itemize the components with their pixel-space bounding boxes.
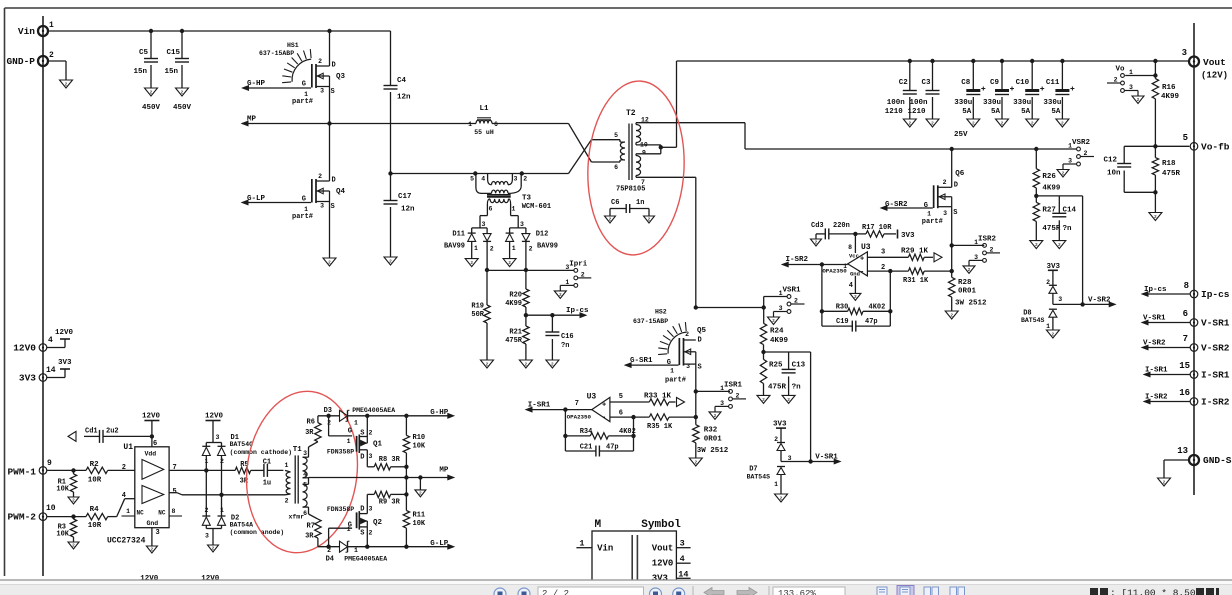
svg-text:1: 1 bbox=[927, 211, 931, 218]
resistor R35 bbox=[647, 414, 696, 431]
svg-text:1: 1 bbox=[474, 245, 478, 252]
capacitor C13 bbox=[782, 352, 806, 395]
svg-text:450V: 450V bbox=[173, 104, 192, 112]
svg-text:1210: 1210 bbox=[907, 108, 926, 116]
wire VSR1 tap down bbox=[810, 352, 812, 462]
svg-text:: [11.00 * 8.50: : [11.00 * 8.50 bbox=[1110, 588, 1196, 595]
svg-text:2: 2 bbox=[369, 430, 373, 437]
svg-text:3: 3 bbox=[369, 506, 373, 513]
svg-text:R4: R4 bbox=[90, 506, 100, 514]
ground at C5 bbox=[145, 88, 158, 96]
svg-text:2: 2 bbox=[72, 543, 75, 549]
resistor R26 bbox=[1033, 149, 1061, 196]
svg-text:U1: U1 bbox=[123, 443, 133, 452]
left connector bus bbox=[42, 16, 44, 576]
svg-text:3V3: 3V3 bbox=[773, 421, 787, 429]
wire T1 pin6 to R7 bbox=[309, 507, 318, 519]
svg-text:G-LP: G-LP bbox=[247, 195, 266, 203]
transformer T1 bbox=[285, 446, 309, 521]
svg-text:Vcc: Vcc bbox=[849, 253, 859, 260]
svg-text:5A: 5A bbox=[991, 108, 1001, 116]
svg-text:3V3: 3V3 bbox=[58, 359, 72, 367]
wire T2 pin7 out bbox=[636, 177, 696, 307]
wire U1 pin7 out bbox=[169, 469, 235, 471]
junction V-SR2 bbox=[1080, 302, 1084, 306]
svg-text:2: 2 bbox=[1114, 77, 1118, 84]
junction C9 bbox=[1000, 59, 1004, 63]
diode D3 bbox=[324, 407, 396, 427]
svg-text:R30: R30 bbox=[836, 304, 849, 312]
power symbol 3V3 at pin 14 bbox=[58, 359, 72, 369]
ground at Q4 source bbox=[323, 258, 336, 266]
wire R26 junction row bbox=[1036, 195, 1082, 197]
svg-text:4K99: 4K99 bbox=[1161, 93, 1180, 101]
junction R31 left bbox=[888, 269, 892, 273]
svg-text:R21: R21 bbox=[509, 329, 522, 337]
wire D1 right leg bbox=[221, 456, 223, 517]
svg-text:12V0: 12V0 bbox=[142, 413, 161, 421]
junction R20/R21 bbox=[524, 313, 528, 317]
annotation red ellipse around T2 bbox=[584, 79, 689, 258]
svg-text:2: 2 bbox=[943, 179, 947, 186]
svg-text:OPA2350: OPA2350 bbox=[822, 267, 847, 274]
svg-text:3: 3 bbox=[303, 450, 307, 457]
resistor R16 bbox=[1152, 61, 1179, 146]
junction D12/R20 bbox=[524, 268, 528, 272]
svg-text:I-SR2: I-SR2 bbox=[786, 256, 809, 264]
svg-text:D: D bbox=[698, 337, 702, 345]
svg-text:47p: 47p bbox=[606, 444, 619, 452]
svg-text:BAV99: BAV99 bbox=[444, 243, 465, 251]
svg-text:6: 6 bbox=[614, 164, 618, 171]
resistor R6 bbox=[305, 416, 321, 442]
svg-text:R32: R32 bbox=[704, 427, 718, 435]
ground below C11 bbox=[1056, 119, 1069, 127]
svg-text:C11: C11 bbox=[1046, 79, 1060, 87]
svg-text:V-SR2: V-SR2 bbox=[1143, 340, 1166, 348]
junction D11/R19 bbox=[485, 268, 489, 272]
capacitor C5 bbox=[133, 31, 160, 112]
resistor R32 bbox=[693, 391, 729, 458]
svg-text:3: 3 bbox=[156, 529, 160, 537]
svg-text:3R: 3R bbox=[305, 429, 314, 437]
transformer T2 bbox=[591, 109, 649, 194]
ground below D2 bbox=[208, 545, 219, 552]
svg-text:D4: D4 bbox=[326, 556, 334, 564]
svg-text:3: 3 bbox=[686, 363, 690, 370]
wire lower rail to T3 bbox=[391, 173, 522, 175]
svg-text:S: S bbox=[953, 209, 957, 217]
svg-text:(12V): (12V) bbox=[1201, 71, 1228, 81]
svg-text:3: 3 bbox=[974, 254, 978, 261]
symbol table box bbox=[592, 531, 676, 583]
svg-text:12V0: 12V0 bbox=[13, 343, 36, 354]
svg-text:3: 3 bbox=[779, 305, 783, 312]
ground on MP rail bbox=[415, 478, 426, 497]
capacitor C9 bbox=[983, 61, 1014, 119]
svg-text:2: 2 bbox=[609, 217, 612, 223]
svg-text:V-SR1: V-SR1 bbox=[1143, 315, 1166, 323]
svg-text:2: 2 bbox=[931, 121, 934, 127]
wire U1 pin5 out bbox=[169, 493, 285, 495]
capacitor C8 bbox=[954, 61, 985, 119]
svg-text:G-LP: G-LP bbox=[430, 540, 449, 548]
diode D12 BAV99 bbox=[506, 221, 558, 270]
junction D1 on pin7 bbox=[204, 468, 208, 472]
transistor Q4 bbox=[292, 173, 346, 221]
svg-text:4: 4 bbox=[48, 336, 53, 345]
svg-text:2: 2 bbox=[968, 267, 971, 273]
wire V-SR1 bbox=[781, 454, 840, 464]
svg-text:(common anode): (common anode) bbox=[230, 529, 285, 536]
svg-text:R19: R19 bbox=[471, 303, 484, 311]
transistor Q1 bbox=[327, 416, 383, 467]
svg-text:Ip-cs: Ip-cs bbox=[566, 307, 589, 315]
svg-text:637-15ABP: 637-15ABP bbox=[633, 318, 668, 325]
wire Vout rail bbox=[677, 60, 1190, 62]
svg-text:1: 1 bbox=[579, 539, 584, 549]
wire Q6 drain bbox=[951, 149, 953, 187]
wire PWM-2 bbox=[47, 516, 86, 518]
ground below R3 bbox=[68, 542, 79, 549]
wire Vo-fb line bbox=[1124, 145, 1189, 147]
svg-text:2: 2 bbox=[762, 397, 765, 403]
svg-text:S: S bbox=[331, 88, 335, 96]
svg-text:2: 2 bbox=[787, 397, 790, 403]
svg-text:part#: part# bbox=[292, 98, 313, 106]
svg-text:8: 8 bbox=[1184, 281, 1189, 291]
svg-text:D: D bbox=[332, 62, 336, 70]
svg-text:BAT54C: BAT54C bbox=[230, 441, 254, 448]
svg-text:FDN358P: FDN358P bbox=[327, 449, 354, 456]
transformer T3 bbox=[470, 171, 551, 228]
label 12V0 bottom right bbox=[201, 575, 220, 583]
connector V-SR2 pin 7 bbox=[1183, 334, 1230, 354]
open arrow to Q6 gate bbox=[934, 253, 942, 262]
right connector bus bbox=[1193, 23, 1195, 495]
wire U3b pin6 bbox=[610, 416, 649, 418]
svg-text:4K99: 4K99 bbox=[505, 300, 522, 308]
wire T2 pin12 out bbox=[636, 122, 745, 124]
svg-text:(common cathode): (common cathode) bbox=[230, 449, 292, 456]
junction R3 top bbox=[71, 514, 75, 518]
connector 3V3 pin 14 bbox=[19, 366, 56, 384]
svg-text:3: 3 bbox=[943, 210, 947, 217]
wire center tap to Vout rail bbox=[676, 61, 678, 147]
svg-text:Vout: Vout bbox=[1203, 57, 1226, 68]
feedback right vertical U3b bbox=[633, 417, 635, 451]
svg-text:BAT54S: BAT54S bbox=[1021, 317, 1045, 324]
svg-text:3V3: 3V3 bbox=[19, 373, 36, 384]
svg-text:C6: C6 bbox=[611, 199, 619, 207]
svg-text:R9 3R: R9 3R bbox=[379, 499, 401, 507]
svg-text:R35 1K: R35 1K bbox=[647, 423, 673, 431]
op-amp U3 second half bbox=[567, 393, 623, 423]
capacitor C3 bbox=[907, 61, 939, 119]
resistor R3 bbox=[56, 517, 76, 542]
svg-text:1: 1 bbox=[220, 507, 224, 514]
svg-text:G-HP: G-HP bbox=[247, 80, 266, 88]
svg-text:1: 1 bbox=[49, 21, 54, 30]
svg-text:C17: C17 bbox=[398, 193, 412, 201]
svg-text:3R: 3R bbox=[305, 533, 314, 541]
svg-text:13: 13 bbox=[1177, 446, 1188, 456]
svg-text:UCC27324: UCC27324 bbox=[107, 537, 146, 546]
svg-text:16: 16 bbox=[1179, 388, 1190, 398]
power symbol 12V0 at pin 4 bbox=[55, 329, 74, 339]
capacitor C11 bbox=[1043, 61, 1074, 119]
svg-text:5: 5 bbox=[619, 393, 623, 401]
svg-text:2: 2 bbox=[685, 331, 689, 338]
svg-text:75P8105: 75P8105 bbox=[616, 186, 645, 194]
svg-text:S: S bbox=[331, 203, 335, 211]
svg-text:R33 1K: R33 1K bbox=[644, 393, 672, 401]
svg-text:2: 2 bbox=[714, 413, 717, 419]
svg-text:C3: C3 bbox=[921, 79, 931, 87]
wire Q3 source to MP bbox=[329, 87, 331, 124]
svg-text:G: G bbox=[302, 81, 306, 89]
resistor R2 bbox=[86, 461, 135, 485]
svg-text:3: 3 bbox=[320, 88, 324, 95]
svg-text:12V0: 12V0 bbox=[55, 329, 74, 337]
svg-text:2: 2 bbox=[736, 392, 740, 399]
svg-text:BAT54A: BAT54A bbox=[230, 522, 254, 529]
wire R24 junction row bbox=[764, 351, 811, 353]
svg-text:C10: C10 bbox=[1016, 79, 1030, 87]
svg-text:3: 3 bbox=[1068, 158, 1072, 165]
wire to ISR1 bbox=[696, 390, 730, 392]
svg-text:BAV99: BAV99 bbox=[537, 243, 558, 251]
svg-text:I-SR1: I-SR1 bbox=[528, 402, 551, 410]
svg-text:1: 1 bbox=[304, 206, 308, 213]
svg-text:10K: 10K bbox=[413, 443, 426, 451]
ground at C15 bbox=[176, 88, 189, 96]
svg-text:S: S bbox=[360, 530, 364, 538]
ground at C6 left bbox=[605, 216, 616, 223]
svg-text:9: 9 bbox=[47, 459, 52, 468]
svg-text:7: 7 bbox=[575, 400, 579, 408]
wire MP rail right of L1 bbox=[492, 123, 569, 125]
inductor L1 bbox=[468, 105, 498, 136]
svg-text:330u: 330u bbox=[954, 99, 972, 107]
wire U3b output I-SR1 bbox=[526, 402, 592, 412]
svg-text:100n: 100n bbox=[909, 99, 928, 107]
svg-text:1: 1 bbox=[126, 508, 130, 515]
svg-text:part#: part# bbox=[292, 213, 313, 221]
svg-text:VSR2: VSR2 bbox=[1072, 139, 1091, 147]
svg-text:PMEG4005AEA: PMEG4005AEA bbox=[352, 407, 395, 414]
svg-text:D: D bbox=[332, 177, 336, 185]
svg-text:2: 2 bbox=[581, 271, 585, 278]
ground below C2 bbox=[903, 119, 916, 127]
svg-text:Vin: Vin bbox=[597, 544, 613, 554]
wire Q4 drain bbox=[329, 124, 331, 182]
svg-text:2: 2 bbox=[369, 530, 373, 537]
svg-text:10: 10 bbox=[46, 504, 56, 513]
svg-text:2: 2 bbox=[490, 246, 494, 253]
wire GND-P to ground bbox=[48, 61, 66, 80]
wire MP drive rail bbox=[309, 477, 448, 479]
ground at GND-P bbox=[60, 80, 73, 88]
resistor R7 bbox=[305, 519, 321, 547]
test point VSR2 bbox=[1057, 139, 1094, 177]
svg-text:4: 4 bbox=[680, 554, 685, 564]
net label MP bottom bbox=[439, 467, 453, 480]
svg-text:2: 2 bbox=[389, 259, 392, 265]
symbol pin 14 3V3 bbox=[652, 570, 691, 584]
feedback left vertical U3b bbox=[564, 410, 566, 451]
svg-text:5: 5 bbox=[1183, 133, 1188, 143]
resistor R10 bbox=[403, 416, 426, 478]
svg-text:5: 5 bbox=[303, 482, 307, 489]
svg-text:T1: T1 bbox=[293, 446, 303, 454]
svg-text:ISR2: ISR2 bbox=[978, 235, 997, 243]
connector I-SR2 pin 16 bbox=[1179, 388, 1230, 408]
svg-text:2: 2 bbox=[1061, 121, 1064, 127]
junction C4/C17/rail bbox=[388, 171, 392, 175]
wire U3a Vcc bbox=[854, 234, 856, 253]
svg-text:I-SR2: I-SR2 bbox=[1145, 394, 1168, 402]
wire Q3 drain bbox=[329, 31, 331, 66]
svg-text:2: 2 bbox=[212, 546, 215, 552]
svg-text:Q3: Q3 bbox=[336, 73, 346, 81]
ground below R32 bbox=[689, 458, 702, 466]
capacitor Cd3 bbox=[811, 222, 855, 239]
svg-text:5: 5 bbox=[470, 176, 474, 183]
svg-text:PMEG4005AEA: PMEG4005AEA bbox=[344, 556, 387, 563]
test point ISR1 bbox=[709, 381, 746, 419]
wire SR1 rail bbox=[696, 307, 764, 309]
junction V-SR1 bbox=[808, 459, 812, 463]
svg-text:U3: U3 bbox=[861, 243, 871, 252]
wire U3a pin3 bbox=[867, 256, 908, 258]
ground below R1 bbox=[68, 497, 79, 504]
wire C14 rail to V-SR2 bbox=[1082, 196, 1084, 305]
resistor R31 bbox=[903, 268, 952, 285]
svg-text:V-SR2: V-SR2 bbox=[1201, 343, 1230, 354]
svg-text:0R01: 0R01 bbox=[704, 436, 723, 444]
wire Q5 source bbox=[695, 364, 697, 391]
annotation red ellipse around T1 bbox=[238, 385, 367, 559]
wire U3a output I-SR2 bbox=[782, 256, 848, 267]
svg-text:2: 2 bbox=[551, 362, 554, 368]
ground below R28 bbox=[945, 311, 958, 319]
svg-text:2: 2 bbox=[815, 240, 818, 246]
svg-text:V-SR1: V-SR1 bbox=[1201, 318, 1230, 329]
svg-text:1n: 1n bbox=[636, 199, 644, 207]
svg-text:8: 8 bbox=[172, 508, 176, 515]
capacitor C15 bbox=[164, 31, 191, 112]
ground below U3a bbox=[850, 293, 861, 300]
svg-text:R29 1K: R29 1K bbox=[901, 248, 929, 256]
svg-text:2: 2 bbox=[529, 246, 533, 253]
svg-text:R16: R16 bbox=[1162, 84, 1176, 92]
svg-text:OPA2350: OPA2350 bbox=[567, 414, 592, 421]
svg-text:R6: R6 bbox=[307, 419, 315, 427]
label 12V0 bottom left bbox=[140, 575, 159, 583]
wire 12V0 stub bbox=[47, 339, 65, 348]
svg-text:3V3: 3V3 bbox=[1047, 263, 1061, 271]
svg-text:2: 2 bbox=[122, 464, 126, 472]
svg-text:133.62%: 133.62% bbox=[778, 589, 816, 595]
svg-text:GND-S: GND-S bbox=[1203, 455, 1232, 466]
svg-text:Cd3: Cd3 bbox=[811, 222, 824, 230]
svg-text:55 uH: 55 uH bbox=[474, 129, 494, 136]
svg-text:I-SR2: I-SR2 bbox=[1201, 397, 1230, 408]
svg-text:2: 2 bbox=[523, 176, 527, 183]
svg-text:330u: 330u bbox=[1013, 99, 1031, 107]
junction R26 top bbox=[1034, 147, 1038, 151]
wire G-LP drive rail bbox=[318, 546, 448, 548]
wire T2 pin5 lead bbox=[620, 142, 625, 160]
svg-text:3: 3 bbox=[514, 176, 518, 183]
junction U3b out feedback bbox=[563, 407, 567, 411]
junction MP ground bbox=[418, 475, 422, 479]
svg-text:2: 2 bbox=[318, 58, 322, 65]
svg-text:+: + bbox=[860, 256, 864, 264]
symbol pin 3 Vout bbox=[652, 539, 691, 554]
power symbol 12V0 at D1 bbox=[205, 413, 224, 443]
wire to ISR2 bbox=[952, 244, 985, 246]
svg-text:HS1: HS1 bbox=[287, 42, 299, 49]
bottom viewer toolbar bbox=[0, 580, 1232, 595]
svg-text:5A: 5A bbox=[1021, 108, 1031, 116]
svg-text:475R: 475R bbox=[1162, 170, 1181, 178]
svg-text:2u2: 2u2 bbox=[106, 428, 119, 436]
svg-text:Vdd: Vdd bbox=[145, 451, 157, 458]
resistor R28 bbox=[949, 245, 988, 311]
svg-text:Ip-cs: Ip-cs bbox=[1201, 289, 1230, 300]
svg-text:1: 1 bbox=[670, 368, 674, 375]
net label Ip-cs at bus bbox=[1142, 286, 1190, 296]
diode D7 BAT54S bbox=[747, 436, 792, 494]
resistor R1 bbox=[56, 470, 76, 497]
capacitor C14 bbox=[1052, 196, 1076, 241]
test point Ipri bbox=[554, 260, 591, 298]
resistor R19 bbox=[471, 270, 490, 360]
svg-text:S: S bbox=[360, 430, 364, 438]
svg-text:1u: 1u bbox=[263, 480, 271, 488]
svg-text:1: 1 bbox=[512, 206, 516, 213]
svg-text:Gnd: Gnd bbox=[147, 520, 159, 527]
svg-text:6: 6 bbox=[1183, 309, 1188, 319]
svg-text:VSR1: VSR1 bbox=[783, 287, 802, 295]
svg-text:14: 14 bbox=[46, 366, 56, 375]
wire T1 pins4-5 tie bbox=[308, 478, 310, 485]
junction C16 top bbox=[550, 313, 554, 317]
junction Q5 source/ISR1 bbox=[694, 389, 698, 393]
svg-text:50R: 50R bbox=[471, 311, 484, 319]
resistor R20 bbox=[505, 270, 529, 315]
junction R9/R11 bbox=[404, 492, 408, 496]
net label G-HP bottom bbox=[430, 409, 454, 418]
svg-text:15n: 15n bbox=[164, 68, 178, 76]
svg-text:G-SR2: G-SR2 bbox=[885, 201, 908, 209]
transistor Q6 bbox=[922, 170, 965, 226]
junction R16 top bbox=[1153, 59, 1157, 63]
svg-text:R26: R26 bbox=[1042, 173, 1056, 181]
page top border bbox=[5, 7, 1232, 9]
svg-text:C13: C13 bbox=[792, 362, 806, 370]
svg-text:G-HP: G-HP bbox=[430, 409, 449, 417]
svg-text:2: 2 bbox=[470, 260, 473, 266]
svg-text:2 / 2: 2 / 2 bbox=[542, 589, 569, 595]
svg-text:I-SR1: I-SR1 bbox=[1145, 367, 1168, 375]
wire GND-S to ground bbox=[1164, 460, 1189, 478]
junction R10 top bbox=[404, 414, 408, 418]
svg-text:10K: 10K bbox=[413, 520, 426, 528]
junction R10 bottom MP bbox=[404, 475, 408, 479]
